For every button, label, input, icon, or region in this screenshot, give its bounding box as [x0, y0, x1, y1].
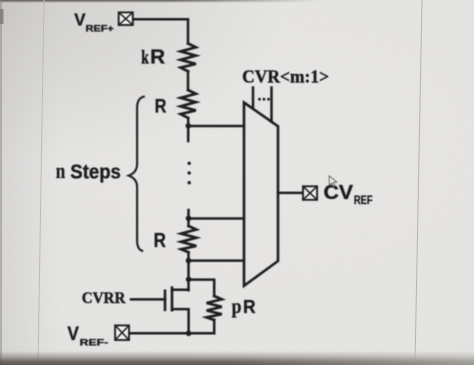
label CVREF — [324, 182, 373, 207]
label VREF+ — [74, 10, 114, 34]
wire kR to R1 — [187, 71, 190, 90]
ladder ellipsis dots — [188, 162, 191, 185]
svg-text:V: V — [67, 324, 79, 345]
transistor Q1 drain wire — [172, 288, 189, 291]
svg-text:R: R — [243, 296, 256, 317]
node bottom junction — [186, 331, 192, 337]
svg-text:CV: CV — [324, 182, 354, 204]
label pR — [232, 296, 257, 318]
mux select line left — [252, 88, 255, 108]
svg-text:CVRR: CVRR — [82, 290, 127, 307]
pad VREF+ — [119, 12, 133, 25]
svg-text:R: R — [154, 230, 167, 252]
wire bottom rail — [130, 332, 215, 335]
label n Steps — [56, 158, 121, 184]
svg-text:V: V — [74, 10, 86, 30]
transistor Q1 channel — [171, 288, 174, 311]
svg-text:Steps: Steps — [70, 162, 121, 184]
label VREF- — [67, 324, 108, 347]
mux select ellipsis — [258, 98, 270, 101]
svg-text:REF+: REF+ — [86, 23, 114, 33]
wire tap2 to mux — [189, 217, 245, 220]
svg-text:p: p — [232, 296, 242, 318]
svg-text:R: R — [155, 95, 167, 117]
transistor Q1 gate bar — [164, 291, 167, 310]
wire dots to tap2 — [187, 210, 190, 226]
svg-text:R: R — [150, 46, 165, 69]
node tap2 — [186, 216, 192, 222]
svg-text:k: k — [141, 48, 149, 69]
wire tap3 to mux — [189, 259, 245, 262]
wire pR bottom — [213, 320, 216, 333]
svg-text:n: n — [56, 158, 66, 183]
node tap1 — [186, 123, 192, 129]
resistor kR — [181, 44, 196, 72]
svg-text:REF: REF — [354, 193, 373, 207]
resistor R2 — [181, 226, 196, 252]
mux U1 — [244, 103, 278, 286]
pad VREF- — [115, 325, 129, 340]
resistor R1 — [181, 90, 196, 118]
wire VREF+ to ladder top — [134, 19, 189, 43]
node pR top junction — [186, 277, 192, 283]
wire junction to pR — [189, 280, 215, 296]
svg-text:CVR<m:1>: CVR<m:1> — [242, 67, 329, 87]
wire mux output — [278, 192, 303, 195]
mouse cursor — [329, 176, 337, 187]
wire CVRR gate lead — [131, 298, 165, 301]
svg-text:REF-: REF- — [80, 337, 109, 347]
transistor Q1 source wire — [172, 309, 189, 333]
pad CVREF — [303, 186, 317, 200]
wire tap1 to mux — [188, 125, 244, 128]
wire R1 to dots — [187, 118, 190, 141]
wire R2 down to transistor — [187, 252, 190, 290]
node tap3 — [186, 258, 192, 264]
resistor pR — [207, 296, 222, 320]
brace n Steps — [129, 97, 144, 251]
mux select line right — [270, 88, 273, 122]
label kR — [141, 46, 165, 69]
